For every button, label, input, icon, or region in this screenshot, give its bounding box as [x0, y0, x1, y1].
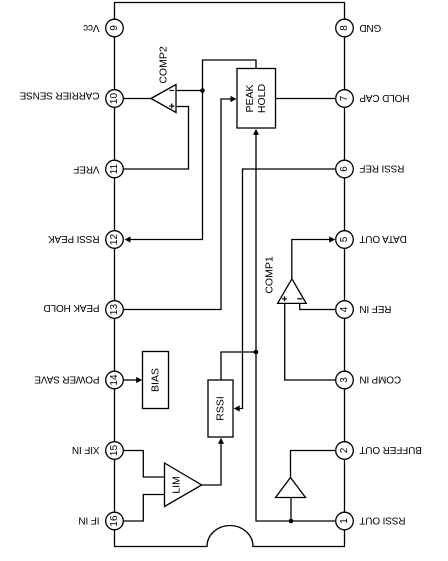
svg-text:RSSI PEAK: RSSI PEAK — [48, 233, 100, 244]
svg-text:2: 2 — [339, 447, 350, 453]
svg-text:9: 9 — [109, 25, 120, 31]
svg-text:12: 12 — [109, 234, 120, 246]
svg-text:5: 5 — [339, 236, 350, 242]
svg-text:BIAS: BIAS — [150, 368, 162, 392]
svg-text:14: 14 — [109, 374, 120, 386]
svg-text:COMP IN: COMP IN — [360, 373, 402, 384]
svg-text:1: 1 — [339, 518, 350, 524]
svg-text:4: 4 — [339, 306, 350, 312]
svg-text:BUFFER OUT: BUFFER OUT — [359, 444, 421, 455]
svg-text:13: 13 — [109, 304, 120, 316]
svg-text:11: 11 — [109, 163, 120, 174]
svg-text:POWER SAVE: POWER SAVE — [34, 373, 99, 384]
svg-text:RSSI OUT: RSSI OUT — [359, 514, 405, 525]
svg-text:DATA OUT: DATA OUT — [359, 233, 406, 244]
svg-text:PEAK HOLD: PEAK HOLD — [44, 302, 100, 313]
svg-text:3: 3 — [339, 377, 350, 383]
svg-text:10: 10 — [109, 93, 120, 105]
svg-text:COMP1: COMP1 — [263, 256, 275, 294]
svg-text:15: 15 — [109, 445, 120, 457]
svg-text:Vcc: Vcc — [83, 22, 99, 33]
svg-text:PEAK: PEAK — [244, 84, 256, 112]
svg-text:HOLD: HOLD — [256, 84, 268, 114]
svg-text:8: 8 — [339, 25, 350, 31]
svg-text:7: 7 — [339, 95, 350, 101]
svg-text:GND: GND — [360, 22, 382, 33]
svg-text:6: 6 — [339, 166, 350, 172]
svg-text:RSSI REF: RSSI REF — [359, 162, 404, 173]
svg-text:IF IN: IF IN — [79, 514, 100, 525]
svg-text:XIF IN: XIF IN — [72, 444, 99, 455]
svg-text:CARRIER SENSE: CARRIER SENSE — [19, 90, 99, 101]
svg-text:16: 16 — [109, 515, 120, 527]
svg-text:LIM: LIM — [171, 476, 183, 494]
svg-text:HOLD CAP: HOLD CAP — [359, 92, 409, 103]
svg-text:REF IN: REF IN — [360, 303, 392, 314]
svg-text:COMP2: COMP2 — [158, 46, 170, 84]
svg-text:RSSI: RSSI — [215, 396, 227, 421]
svg-text:VREF: VREF — [73, 164, 99, 175]
